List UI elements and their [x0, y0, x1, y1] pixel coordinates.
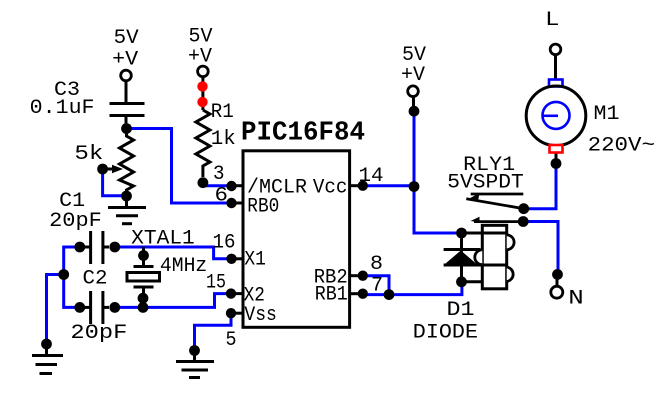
svg-text:6: 6 [215, 185, 229, 208]
crystal XTAL1 [127, 247, 160, 307]
motor M1 bottom terminal (red) [550, 145, 563, 153]
capacitor C2 [85, 291, 109, 324]
pin 16 X1 [213, 232, 244, 265]
svg-text:20pF: 20pF [49, 210, 102, 233]
node C1 right [109, 242, 120, 253]
relay RLY1 armature arrow [467, 193, 480, 201]
svg-text:R1: R1 [211, 101, 234, 124]
node C3 bottom junction [121, 123, 132, 134]
capacitor C3 [110, 104, 145, 129]
motor M1 top terminal (blue) [549, 80, 563, 87]
node RB1 RB2 junction [384, 289, 395, 300]
node C2 left [74, 302, 85, 313]
node red marker 2 [197, 97, 207, 107]
node left bus junction [58, 269, 69, 280]
power +V supply (Vcc branch) label [401, 44, 427, 87]
svg-text:5k: 5k [74, 143, 103, 166]
svg-text:4MHz: 4MHz [160, 255, 207, 278]
power +V supply (R1 branch) label [188, 26, 213, 69]
node crystal bottom junction [138, 302, 149, 313]
ground (Vss) [176, 351, 214, 378]
node C2 right [109, 302, 120, 313]
pin 3 /MCLR [213, 163, 243, 191]
ground (C1 C2) [32, 344, 63, 374]
pin 5 Vss [226, 308, 244, 352]
pin 15 X2 [206, 272, 243, 299]
node R1 bottom junction [198, 177, 209, 188]
node motor bottom junction [551, 158, 562, 169]
svg-text:220V~: 220V~ [588, 135, 655, 158]
svg-text:M1: M1 [594, 103, 620, 126]
node crystal bottom lead [138, 293, 149, 304]
wire motor to junction [555, 153, 558, 164]
svg-text:+V: +V [401, 64, 426, 87]
motor M1 inner symbol [543, 102, 570, 129]
wire C2 right to X2 [115, 294, 231, 308]
wire relay NO to N terminal [523, 222, 558, 273]
svg-text:5: 5 [226, 329, 237, 352]
wire RB1 to diode [363, 282, 462, 295]
node coil top junction [456, 228, 467, 239]
relay RLY1 NO contact arrow [471, 217, 480, 222]
svg-text:L: L [545, 9, 560, 32]
svg-text:15: 15 [206, 272, 226, 295]
wire junction to ground [47, 275, 64, 345]
potentiometer wiper arrow [103, 165, 123, 173]
svg-text:C2: C2 [83, 268, 108, 291]
wire N stub [556, 274, 559, 288]
ground (potentiometer) [108, 196, 146, 224]
svg-text:5V: 5V [114, 27, 140, 50]
node supply dot (Vcc branch) [409, 106, 420, 117]
wire supply to C3 [125, 81, 128, 102]
svg-text:20pF: 20pF [70, 322, 127, 345]
wire wiper to pot bottom [103, 169, 127, 196]
power +V terminal circle (Vcc branch) [408, 86, 419, 97]
wire L to motor [554, 54, 557, 80]
terminal N circle [551, 286, 563, 298]
svg-text:1k: 1k [211, 128, 236, 151]
relay RLY1 switch NC contact bar [471, 193, 524, 196]
node crystal top [138, 250, 149, 261]
svg-text:XTAL1: XTAL1 [131, 228, 195, 251]
node red marker 1 [197, 81, 207, 91]
svg-text:D1: D1 [447, 299, 475, 322]
svg-text:+V: +V [188, 46, 213, 69]
svg-text:Vcc: Vcc [313, 177, 348, 200]
node coil bottom junction [456, 276, 467, 287]
svg-text:RB0: RB0 [247, 196, 279, 219]
power +V terminal circle (R1 branch) [198, 66, 209, 77]
svg-text:7: 7 [371, 275, 383, 298]
svg-text:PIC16F84: PIC16F84 [241, 118, 365, 148]
node Vcc rail junction [409, 181, 420, 192]
pin 8 RB2 [350, 253, 383, 281]
op-amp chip PIC16F84 body [243, 151, 350, 327]
wire RB2 to RB1 net [363, 276, 389, 295]
power +V supply (C3 branch) label [112, 27, 139, 72]
relay RLY1 armature blade [466, 199, 522, 209]
svg-text:3: 3 [213, 163, 225, 186]
wire C1 right to X1 [115, 247, 232, 259]
svg-text:X1: X1 [244, 249, 266, 272]
relay coil bottom stub [462, 280, 483, 283]
node wiper terminal [97, 164, 108, 175]
resistor R1 [196, 110, 210, 177]
relay coil bump top right [507, 235, 514, 250]
node Vss ground dot [189, 345, 200, 356]
pin 7 RB1 [350, 275, 383, 299]
pin 14 Vcc [350, 165, 384, 191]
wire supply to R1 [201, 76, 204, 110]
node C1 left [74, 242, 85, 253]
wire R1 to pin 3 [203, 183, 232, 186]
capacitor C1 [85, 231, 109, 264]
potentiometer 5k body [120, 133, 134, 196]
relay RLY1 NO contact bar [474, 220, 523, 223]
wire Vss to ground [195, 313, 232, 350]
svg-text:RB1: RB1 [315, 284, 348, 307]
diode D1 [444, 233, 507, 282]
svg-text:+V: +V [112, 49, 139, 72]
node N terminal dot [552, 269, 563, 280]
svg-text:Vss: Vss [244, 304, 277, 327]
relay coil top terminal line [462, 232, 507, 235]
relay coil bump bottom right [507, 267, 513, 282]
svg-text:16: 16 [213, 232, 236, 255]
svg-text:8: 8 [370, 253, 383, 276]
pin 6 RB0 [215, 185, 244, 209]
terminal L circle [550, 44, 561, 55]
relay coil body [482, 225, 506, 288]
node relay common [518, 203, 529, 214]
motor M1 body [526, 86, 586, 146]
node ground connection dot [41, 339, 52, 350]
svg-text:14: 14 [359, 165, 384, 188]
wire Vcc pin to rail [363, 184, 414, 187]
svg-text:DIODE: DIODE [413, 322, 478, 345]
wire C3 junction to RB0 [127, 129, 232, 204]
power +V terminal circle (C3 branch) [121, 70, 132, 81]
svg-text:N: N [568, 288, 584, 311]
relay coil bump middle left [475, 250, 483, 265]
wire Vcc rail to relay coil [414, 111, 462, 233]
svg-text:5VSPDT: 5VSPDT [447, 172, 523, 195]
wire C1 left to C2 left [64, 247, 80, 307]
svg-text:0.1uF: 0.1uF [30, 97, 95, 120]
node pot bottom junction [121, 191, 132, 202]
node relay NO [518, 216, 529, 227]
wire supply stub [412, 96, 415, 111]
wire motor to relay common [524, 164, 556, 209]
